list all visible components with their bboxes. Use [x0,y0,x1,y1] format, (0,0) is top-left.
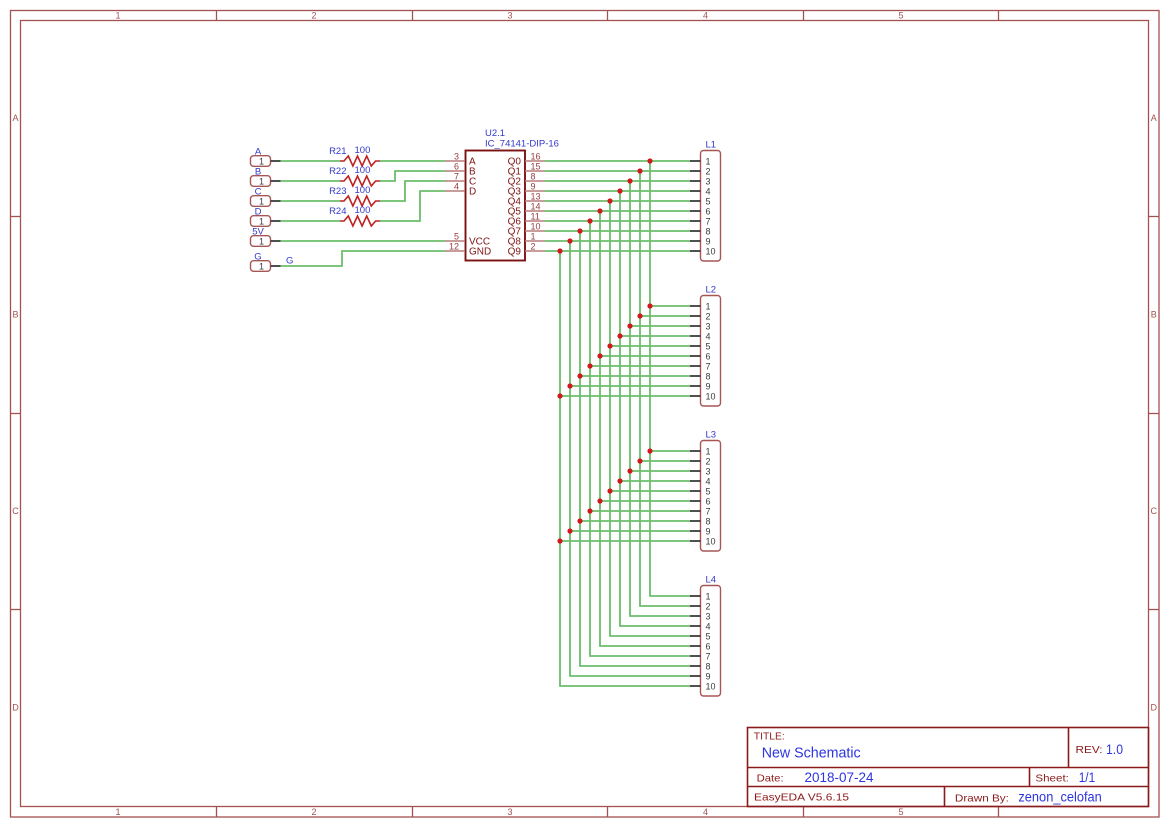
L3 pin 10 [690,536,716,546]
svg-text:8: 8 [706,371,711,381]
svg-text:2018-07-24: 2018-07-24 [805,770,874,785]
svg-text:New Schematic: New Schematic [762,745,861,761]
svg-text:4: 4 [706,476,711,486]
U2.1 pin 6 (B) [445,161,476,177]
svg-text:10: 10 [706,391,716,401]
svg-text:100: 100 [355,205,371,216]
svg-text:1.0: 1.0 [1106,742,1123,757]
svg-text:1: 1 [259,176,264,186]
svg-text:C: C [1150,506,1157,516]
svg-text:B: B [1151,309,1157,319]
svg-text:16: 16 [531,151,541,161]
wire Q0 branch to L2 pin 1 [650,305,690,307]
svg-text:D: D [12,702,19,712]
svg-text:8: 8 [531,171,536,181]
svg-text:1: 1 [706,591,711,601]
L4 pin 1 [690,591,711,601]
wire Q8 to L1 pin 9 [545,240,690,242]
svg-text:5: 5 [706,631,711,641]
wire Q6 vertical bus drop to L4 pin 7 [590,221,690,656]
L1 pin 9 [690,236,711,246]
svg-text:7: 7 [706,216,711,226]
svg-text:zenon_celofan: zenon_celofan [1018,789,1101,804]
wire G to U2.1 GND pin 12 [281,251,446,266]
junction Q0/L3 [647,448,652,453]
svg-text:L1: L1 [706,140,717,151]
junction Q8/L3 [567,528,572,533]
svg-text:EasyEDA V5.6.15: EasyEDA V5.6.15 [754,792,849,804]
svg-text:2: 2 [531,241,536,251]
wire Q5 branch to L3 pin 6 [600,500,690,502]
svg-text:7: 7 [706,506,711,516]
L4 pin 3 [690,611,711,621]
row ruler ticks left [11,217,21,610]
svg-text:7: 7 [454,171,459,181]
junction Q1/L3 [637,458,642,463]
svg-text:4: 4 [706,621,711,631]
svg-text:5: 5 [706,196,711,206]
connector L2 (10-pin header) [701,285,721,407]
svg-text:100: 100 [355,185,371,196]
wire 5V to U2.1 VCC pin 5 [281,240,446,242]
svg-text:D: D [1150,702,1157,712]
L3 pin 4 [690,476,711,486]
svg-text:1: 1 [706,156,711,166]
wire C to R23 [281,200,341,202]
wire Q7 vertical bus drop to L4 pin 8 [580,231,690,666]
wire Q3 branch to L2 pin 4 [620,335,690,337]
connector A (1-pin header) [251,146,281,166]
svg-text:3: 3 [706,176,711,186]
wire Q4 vertical bus drop to L4 pin 5 [610,201,690,636]
U2.1 pin 9 (Q3) [508,181,545,197]
svg-text:D: D [469,186,476,197]
wire Q9 branch to L2 pin 10 [560,395,690,397]
svg-text:1: 1 [115,11,120,21]
svg-text:3: 3 [507,807,512,817]
svg-text:100: 100 [355,165,371,176]
svg-text:6: 6 [706,641,711,651]
L1 pin 10 [690,246,716,256]
connector G (1-pin header) [251,251,281,271]
connector L4 (10-pin header) [701,575,721,697]
IC U2.1 IC_74141-DIP-16 body [466,151,526,261]
wire Q9 vertical bus drop to L4 pin 10 [560,251,690,686]
connector L1 (10-pin header) [701,140,721,262]
wire Q7 branch to L2 pin 8 [580,375,690,377]
resistor R22 [340,176,380,186]
wire Q8 branch to L3 pin 9 [570,530,690,532]
svg-text:G: G [286,256,293,267]
L4 pin 9 [690,671,711,681]
U2.1 pin 7 (C) [445,171,476,187]
L2 pin 5 [690,341,711,351]
svg-text:3: 3 [706,321,711,331]
L2 pin 10 [690,391,716,401]
svg-text:2: 2 [706,601,711,611]
svg-text:6: 6 [706,206,711,216]
svg-text:B: B [12,309,18,319]
svg-text:4: 4 [706,331,711,341]
svg-text:100: 100 [355,145,371,156]
connector 5V (1-pin header) [251,226,281,246]
junction Q1/L2 [637,313,642,318]
L4 pin 2 [690,601,711,611]
svg-text:7: 7 [706,651,711,661]
svg-text:1: 1 [259,196,264,206]
svg-text:1: 1 [706,446,711,456]
L3 pin 7 [690,506,711,516]
row ruler ticks right [1149,217,1160,610]
L3 pin 5 [690,486,711,496]
junction Q6/L3 [587,508,592,513]
svg-text:Drawn By:: Drawn By: [955,792,1009,804]
svg-text:8: 8 [706,661,711,671]
svg-text:Q9: Q9 [508,246,522,257]
svg-text:2: 2 [311,11,316,21]
L2 pin 9 [690,381,711,391]
svg-text:1: 1 [706,301,711,311]
svg-text:10: 10 [706,246,716,256]
resistor R21 [340,156,380,166]
svg-text:10: 10 [706,536,716,546]
L3 pin 2 [690,456,711,466]
junction Q0/L1 [647,158,652,163]
connector B (1-pin header) [251,166,281,186]
L3 pin 3 [690,466,711,476]
wire Q6 branch to L2 pin 7 [590,365,690,367]
svg-text:11: 11 [531,211,540,221]
svg-text:L2: L2 [706,285,717,296]
svg-text:1: 1 [259,236,264,246]
svg-text:C: C [12,506,19,516]
junction Q2/L2 [627,323,632,328]
junction Q7/L2 [577,373,582,378]
svg-text:Sheet:: Sheet: [1035,772,1069,784]
junction Q1/L1 [637,168,642,173]
wire Q9 to L1 pin 10 [545,250,690,252]
title block outline [748,728,1149,807]
L2 pin 1 [690,301,711,311]
junction Q2/L3 [627,468,632,473]
svg-text:R22: R22 [329,166,346,177]
svg-text:9: 9 [706,381,711,391]
connector L3 (10-pin header) [701,430,721,552]
resistor R23 [340,196,380,206]
junction Q2/L1 [627,178,632,183]
svg-text:A: A [1151,113,1157,123]
svg-text:IC_74141-DIP-16: IC_74141-DIP-16 [485,139,559,150]
L1 pin 5 [690,196,711,206]
junction Q9/L3 [557,538,562,543]
wire Q3 to L1 pin 4 [545,190,690,192]
junction Q3/L3 [617,478,622,483]
svg-text:2: 2 [706,311,711,321]
wire Q8 branch to L2 pin 9 [570,385,690,387]
junction Q5/L1 [597,208,602,213]
svg-text:2: 2 [706,166,711,176]
U2.1 pin 14 (Q5) [508,201,545,217]
junction Q5/L3 [597,498,602,503]
svg-text:1: 1 [259,261,264,271]
wire Q6 to L1 pin 7 [545,220,690,222]
wire Q5 branch to L2 pin 6 [600,355,690,357]
L2 pin 2 [690,311,711,321]
svg-text:4: 4 [703,11,708,21]
wire R22 to U2.1 pin 6 [380,171,445,181]
wire R23 to U2.1 pin 7 [380,181,445,201]
svg-text:4: 4 [454,181,459,191]
svg-text:15: 15 [531,161,541,171]
junction Q6/L2 [587,363,592,368]
wire Q3 vertical bus drop to L4 pin 4 [620,191,690,626]
wire Q4 branch to L2 pin 5 [610,345,690,347]
junction Q5/L2 [597,353,602,358]
svg-text:1: 1 [259,156,264,166]
svg-text:8: 8 [706,226,711,236]
L4 pin 7 [690,651,711,661]
U2.1 pin 16 (Q0) [508,151,545,167]
U2.1 pin 5 (VCC) [445,231,490,247]
junction Q9/L1 [557,248,562,253]
svg-text:5: 5 [706,486,711,496]
svg-text:9: 9 [706,671,711,681]
svg-text:REV:: REV: [1076,744,1103,756]
junction Q3/L1 [617,188,622,193]
svg-text:5: 5 [898,11,903,21]
wire Q0 to L1 pin 1 [545,160,690,162]
L2 pin 8 [690,371,711,381]
svg-text:14: 14 [531,201,541,211]
wire Q8 vertical bus drop to L4 pin 9 [570,241,690,676]
junction Q0/L2 [647,303,652,308]
wire Q2 branch to L2 pin 3 [630,325,690,327]
junction Q7/L3 [577,518,582,523]
svg-text:L3: L3 [706,430,717,441]
svg-text:7: 7 [706,361,711,371]
junction Q4/L3 [607,488,612,493]
svg-text:9: 9 [706,526,711,536]
junction Q3/L2 [617,333,622,338]
svg-text:5: 5 [706,341,711,351]
wire R24 to U2.1 pin 4 [380,191,445,221]
wire Q1 branch to L3 pin 2 [640,460,690,462]
svg-text:R24: R24 [329,206,346,217]
wire Q1 to L1 pin 2 [545,170,690,172]
svg-text:4: 4 [703,807,708,817]
svg-text:1: 1 [259,216,264,226]
svg-text:A: A [12,113,18,123]
L2 pin 6 [690,351,711,361]
L1 pin 7 [690,216,711,226]
L1 pin 4 [690,186,711,196]
svg-text:L4: L4 [706,575,717,586]
wire Q9 branch to L3 pin 10 [560,540,690,542]
svg-text:R23: R23 [329,186,346,197]
junction Q7/L1 [577,228,582,233]
svg-text:1: 1 [115,807,120,817]
L2 pin 7 [690,361,711,371]
column ruler ticks top [217,11,999,21]
L1 pin 2 [690,166,711,176]
L1 pin 6 [690,206,711,216]
L1 pin 1 [690,156,711,166]
svg-text:12: 12 [449,241,459,251]
column ruler ticks bottom [217,807,999,818]
wire Q0 branch to L3 pin 1 [650,450,690,452]
wire Q0 vertical bus drop to L4 pin 1 [650,161,690,596]
L3 pin 1 [690,446,711,456]
wire Q2 branch to L3 pin 3 [630,470,690,472]
svg-text:6: 6 [454,161,459,171]
wire Q5 vertical bus drop to L4 pin 6 [600,211,690,646]
svg-text:R21: R21 [329,146,346,157]
svg-text:6: 6 [706,496,711,506]
svg-text:13: 13 [531,191,541,201]
L2 pin 3 [690,321,711,331]
svg-text:3: 3 [706,466,711,476]
svg-text:4: 4 [706,186,711,196]
junction Q8/L1 [567,238,572,243]
svg-text:6: 6 [706,351,711,361]
svg-text:TITLE:: TITLE: [754,730,785,742]
wire R21 to U2.1 pin 3 [380,160,445,162]
svg-text:U2.1: U2.1 [485,128,505,139]
wire D to R24 [281,220,341,222]
U2.1 pin 8 (Q2) [508,171,545,187]
connector D (1-pin header) [251,206,281,226]
wire Q6 branch to L3 pin 7 [590,510,690,512]
junction Q4/L1 [607,198,612,203]
junction Q8/L2 [567,383,572,388]
wire Q2 to L1 pin 3 [545,180,690,182]
L1 pin 8 [690,226,711,236]
wire Q2 vertical bus drop to L4 pin 3 [630,181,690,616]
wire Q3 branch to L3 pin 4 [620,480,690,482]
U2.1 pin 1 (Q8) [508,231,545,247]
svg-text:3: 3 [507,11,512,21]
U2.1 pin 10 (Q7) [508,221,545,237]
L4 pin 4 [690,621,711,631]
wire Q4 branch to L3 pin 5 [610,490,690,492]
wire Q1 vertical bus drop to L4 pin 2 [640,171,690,606]
U2.1 pin 2 (Q9) [508,241,545,257]
svg-text:3: 3 [454,151,459,161]
connector C (1-pin header) [251,186,281,206]
L4 pin 5 [690,631,711,641]
svg-text:10: 10 [706,681,716,691]
resistor R24 [340,216,380,226]
U2.1 pin 12 (GND) [445,241,491,257]
L2 pin 4 [690,331,711,341]
junction Q4/L2 [607,343,612,348]
wire Q7 to L1 pin 8 [545,230,690,232]
L3 pin 8 [690,516,711,526]
wire B to R22 [281,180,341,182]
U2.1 pin 15 (Q1) [508,161,545,177]
svg-text:3: 3 [706,611,711,621]
U2.1 pin 3 (A) [445,151,476,167]
svg-text:5: 5 [898,807,903,817]
U2.1 pin 13 (Q4) [508,191,545,207]
wire A to R21 [281,160,341,162]
junction Q9/L2 [557,393,562,398]
svg-text:1/1: 1/1 [1079,770,1096,785]
U2.1 pin 4 (D) [445,181,476,197]
svg-text:Date:: Date: [757,772,784,784]
L3 pin 9 [690,526,711,536]
svg-text:5: 5 [454,231,459,241]
svg-text:10: 10 [531,221,541,231]
L4 pin 8 [690,661,711,671]
svg-text:2: 2 [706,456,711,466]
wire Q4 to L1 pin 5 [545,200,690,202]
U2.1 pin 11 (Q6) [508,211,545,227]
svg-text:8: 8 [706,516,711,526]
wire Q5 to L1 pin 6 [545,210,690,212]
wire Q1 branch to L2 pin 2 [640,315,690,317]
junction Q6/L1 [587,218,592,223]
svg-text:1: 1 [531,231,536,241]
svg-text:9: 9 [706,236,711,246]
L4 pin 10 [690,681,716,691]
L3 pin 6 [690,496,711,506]
L1 pin 3 [690,176,711,186]
L4 pin 6 [690,641,711,651]
wire Q7 branch to L3 pin 8 [580,520,690,522]
svg-text:9: 9 [531,181,536,191]
svg-text:2: 2 [311,807,316,817]
svg-text:GND: GND [469,246,491,257]
